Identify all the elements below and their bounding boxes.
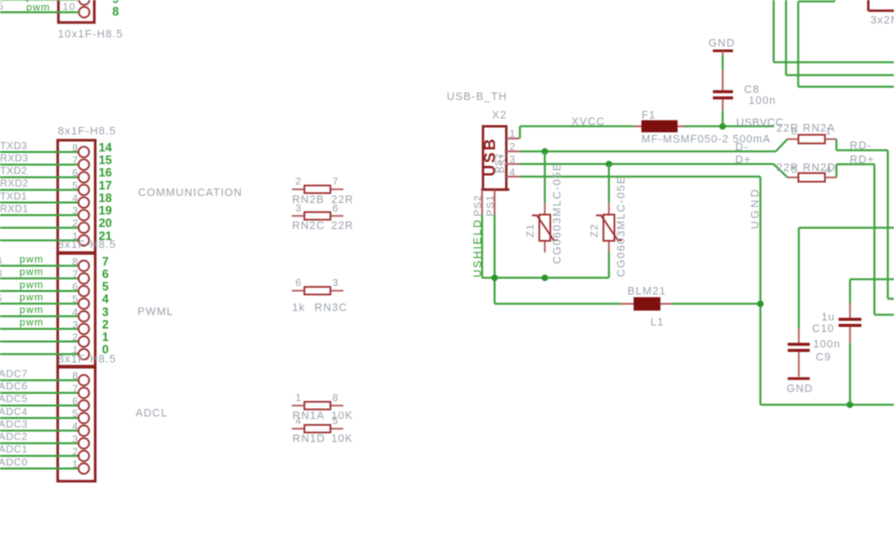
svg-text:USB-B_TH: USB-B_TH (447, 91, 508, 103)
svg-text:RXD3: RXD3 (0, 153, 28, 164)
svg-text:pwm: pwm (20, 292, 44, 303)
svg-text:ADC3: ADC3 (0, 419, 28, 430)
svg-text:5: 5 (332, 416, 339, 427)
svg-text:3: 3 (0, 268, 3, 279)
svg-text:GND: GND (787, 383, 814, 395)
svg-text:7: 7 (72, 269, 79, 280)
svg-text:MF-MSMF050-2 500mA: MF-MSMF050-2 500mA (641, 134, 770, 146)
svg-text:RN3C: RN3C (315, 302, 348, 314)
svg-text:6: 6 (295, 278, 302, 289)
svg-text:CG0603MLC-05E: CG0603MLC-05E (551, 163, 563, 264)
svg-text:5: 5 (791, 165, 798, 176)
svg-text:1: 1 (72, 460, 79, 471)
svg-text:L1: L1 (650, 316, 664, 328)
svg-text:1k: 1k (292, 302, 305, 314)
svg-text:3x2M: 3x2M (871, 15, 894, 27)
svg-text:ADC7: ADC7 (0, 369, 28, 380)
svg-text:CG0603MLC-05E: CG0603MLC-05E (615, 176, 627, 277)
svg-text:ADC6: ADC6 (0, 382, 28, 393)
svg-text:5: 5 (0, 2, 4, 13)
svg-text:ADC0: ADC0 (0, 457, 28, 468)
svg-text:X2: X2 (492, 110, 507, 122)
svg-text:RXD2: RXD2 (0, 179, 28, 190)
svg-text:4: 4 (72, 307, 79, 318)
svg-text:22R: 22R (331, 220, 354, 232)
svg-text:Z2: Z2 (589, 223, 601, 237)
svg-text:7: 7 (72, 156, 79, 167)
svg-text:5: 5 (0, 294, 3, 305)
svg-text:6: 6 (72, 168, 79, 179)
svg-text:RN1D: RN1D (293, 433, 326, 445)
svg-text:pwm: pwm (20, 318, 44, 329)
svg-text:8x1F-H8.5: 8x1F-H8.5 (58, 126, 117, 138)
svg-text:3: 3 (72, 434, 79, 445)
svg-text:10K: 10K (331, 433, 353, 445)
svg-text:5: 5 (72, 295, 79, 306)
svg-text:100n: 100n (813, 338, 841, 350)
svg-text:PWML: PWML (138, 306, 174, 318)
svg-text:XVCC: XVCC (572, 116, 606, 128)
svg-text:PS1: PS1 (498, 153, 509, 173)
svg-text:pwm: pwm (20, 267, 44, 278)
svg-text:5: 5 (72, 181, 79, 192)
svg-text:BLM21: BLM21 (628, 286, 667, 298)
svg-text:2: 2 (295, 177, 302, 188)
svg-text:ADCL: ADCL (136, 408, 168, 420)
svg-text:RD+: RD+ (850, 154, 875, 166)
svg-text:3: 3 (72, 206, 79, 217)
svg-text:pwm: pwm (20, 255, 44, 266)
svg-text:7: 7 (72, 384, 79, 395)
svg-text:F1: F1 (642, 109, 656, 121)
svg-text:8x1F-H8.5: 8x1F-H8.5 (58, 239, 117, 251)
svg-text:TXD1: TXD1 (0, 191, 27, 202)
svg-text:C10: C10 (812, 323, 835, 335)
svg-text:Z1: Z1 (525, 223, 537, 237)
svg-text:4: 4 (825, 165, 832, 176)
svg-text:6: 6 (72, 396, 79, 407)
svg-text:1: 1 (509, 129, 516, 140)
svg-text:TXD2: TXD2 (0, 166, 27, 177)
svg-text:C9: C9 (816, 351, 832, 363)
svg-text:1u: 1u (821, 311, 835, 323)
svg-text:2: 2 (72, 333, 79, 344)
svg-text:C8: C8 (744, 84, 760, 96)
svg-text:ADC5: ADC5 (0, 394, 28, 405)
svg-text:6: 6 (72, 282, 79, 293)
svg-text:4: 4 (0, 256, 3, 267)
svg-text:8: 8 (791, 127, 798, 138)
svg-text:4: 4 (295, 416, 302, 427)
svg-text:3: 3 (509, 155, 516, 166)
svg-text:1: 1 (825, 127, 832, 138)
svg-text:9: 9 (112, 0, 119, 6)
svg-text:8: 8 (332, 393, 339, 404)
svg-text:pwm: pwm (20, 280, 44, 291)
svg-text:3: 3 (332, 278, 339, 289)
svg-text:pwm: pwm (20, 305, 44, 316)
svg-text:UGND: UGND (750, 187, 762, 229)
svg-text:PS1: PS1 (485, 195, 496, 217)
svg-text:4: 4 (72, 422, 79, 433)
svg-text:D+: D+ (735, 154, 751, 166)
svg-text:RN2C: RN2C (292, 220, 325, 232)
svg-text:RXD1: RXD1 (0, 204, 28, 215)
svg-text:3: 3 (72, 320, 79, 331)
svg-text:7: 7 (332, 177, 339, 188)
svg-text:1: 1 (295, 393, 302, 404)
svg-text:ADC1: ADC1 (0, 445, 28, 456)
svg-text:100n: 100n (749, 95, 777, 107)
svg-text:4: 4 (509, 167, 516, 178)
svg-text:D-: D- (735, 141, 748, 153)
svg-text:10: 10 (63, 2, 76, 13)
svg-text:6: 6 (332, 203, 339, 214)
svg-text:8: 8 (112, 5, 119, 19)
svg-text:ADC4: ADC4 (0, 407, 28, 418)
svg-text:GND: GND (709, 37, 736, 49)
svg-text:4: 4 (72, 193, 79, 204)
svg-text:RD-: RD- (850, 140, 872, 152)
svg-text:2: 2 (72, 447, 79, 458)
svg-text:TXD3: TXD3 (0, 141, 27, 152)
svg-text:3: 3 (295, 203, 302, 214)
svg-text:2: 2 (72, 219, 79, 230)
svg-text:8: 8 (72, 257, 79, 268)
svg-text:8: 8 (72, 371, 79, 382)
svg-text:COMMUNICATION: COMMUNICATION (138, 187, 242, 199)
svg-text:5: 5 (72, 409, 79, 420)
svg-text:PS2: PS2 (473, 195, 484, 217)
svg-text:8x1F-H8.5: 8x1F-H8.5 (58, 354, 117, 366)
svg-text:2: 2 (509, 142, 516, 153)
svg-text:pwm: pwm (26, 3, 50, 14)
svg-text:ADC2: ADC2 (0, 432, 28, 443)
svg-text:8: 8 (72, 143, 79, 154)
svg-text:10x1F-H8.5: 10x1F-H8.5 (58, 29, 123, 41)
